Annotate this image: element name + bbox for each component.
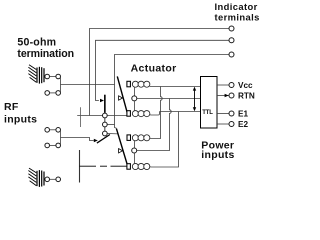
svg-text:inputs: inputs bbox=[201, 149, 234, 161]
terminal circle RTN bbox=[229, 93, 234, 98]
coil core square 1 bbox=[127, 81, 130, 87]
svg-text:inputs: inputs bbox=[4, 114, 37, 126]
switch arm 1 bbox=[117, 76, 127, 112]
wire common 1 to box bbox=[137, 98, 201, 100]
connector A link bbox=[60, 77, 62, 93]
label: RF inputs bbox=[4, 101, 37, 126]
wire indicator 2 bbox=[96, 40, 230, 100]
wire coil 1 to box bbox=[149, 85, 200, 88]
linkage bar lower bbox=[79, 150, 81, 183]
arrow RTN bbox=[225, 94, 229, 98]
termination 2 hatch bbox=[37, 170, 44, 187]
linkage triangle 2 bbox=[119, 149, 123, 153]
wire indicator 3 bbox=[115, 55, 230, 129]
wire RTN bbox=[217, 95, 229, 97]
label: Indicator terminals bbox=[215, 1, 260, 23]
svg-text:RTN: RTN bbox=[238, 92, 255, 101]
svg-text:termination: termination bbox=[17, 48, 74, 60]
connector pair C bbox=[45, 177, 50, 182]
wire indicator 1 branch to chain bbox=[77, 115, 102, 117]
common node circle 1 bbox=[134, 87, 136, 96]
wire tap termination 1 to node bbox=[61, 84, 115, 86]
terminal circle E2 bbox=[229, 122, 234, 127]
wire tap RF input to arm bbox=[61, 138, 94, 141]
termination 1 wire to connector bbox=[43, 76, 46, 78]
common node circle 2 bbox=[134, 141, 136, 148]
svg-text:E1: E1 bbox=[238, 110, 248, 119]
wire chain circle3 to arm 2 bbox=[107, 133, 118, 135]
wire E2 bbox=[217, 123, 229, 125]
chain spine bbox=[104, 113, 106, 136]
coil 1 bbox=[132, 81, 150, 87]
wire chain circle2 to node bbox=[107, 124, 114, 126]
termination 1 hatch bbox=[37, 67, 44, 84]
chain circle 1 bbox=[103, 113, 108, 118]
chain circle 3 bbox=[103, 131, 108, 136]
wire chain circle1 to contact square 2 bbox=[107, 115, 127, 117]
wire E1 bbox=[217, 113, 229, 115]
svg-text:Vcc: Vcc bbox=[238, 81, 253, 90]
riser coil 4 bbox=[149, 112, 178, 168]
switch arm 2 bbox=[116, 129, 127, 167]
connector pair A row 1 bbox=[45, 74, 50, 79]
coil 3 bbox=[132, 135, 150, 141]
linkage guide bar bbox=[80, 107, 82, 127]
connector pair A row 2 bbox=[45, 91, 50, 96]
arrow RF input to contact bbox=[94, 139, 98, 143]
TTL level double arrow bbox=[193, 87, 196, 112]
label: 50-ohm termination bbox=[17, 37, 74, 60]
linkage triangle 1 bbox=[119, 96, 123, 100]
plunger bar top bbox=[104, 95, 106, 113]
coil 2 bbox=[132, 111, 150, 117]
coil core square 2 bbox=[127, 111, 130, 117]
contact diagonal behind chain circle 3 bbox=[97, 135, 110, 144]
svg-text:E2: E2 bbox=[238, 120, 248, 129]
label: Power inputs bbox=[201, 139, 234, 161]
svg-text:RF: RF bbox=[4, 101, 19, 113]
dash-dot link to arm 2 bbox=[80, 165, 127, 167]
wire Vcc bbox=[217, 84, 229, 86]
wire coil 2 jog bbox=[149, 112, 159, 116]
wire drive B to box bbox=[160, 111, 201, 113]
terminal circle E1 bbox=[229, 111, 234, 116]
wire indicator 1 bbox=[90, 29, 230, 116]
riser coil 3 bbox=[149, 112, 160, 139]
svg-text:TTL: TTL bbox=[202, 110, 213, 116]
terminal circle indicator 3 bbox=[229, 52, 234, 57]
terminal circle indicator 2 bbox=[229, 38, 234, 43]
terminal circle indicator 1 bbox=[229, 26, 234, 31]
chain circle 2 bbox=[103, 122, 108, 127]
svg-text:50-ohm: 50-ohm bbox=[17, 37, 56, 49]
jog coil1 branch over common bbox=[161, 87, 163, 112]
riser common 2 bbox=[137, 99, 171, 151]
connector pair B row 1 bbox=[45, 128, 50, 133]
svg-text:terminals: terminals bbox=[215, 11, 260, 22]
coil 4 bbox=[132, 163, 150, 169]
terminal circle Vcc bbox=[229, 83, 234, 88]
svg-text:Actuator: Actuator bbox=[131, 63, 177, 75]
coil core square 3 bbox=[127, 135, 131, 141]
coil core square 4 bbox=[127, 164, 130, 170]
arrow indicator2 to plunger bbox=[100, 99, 104, 102]
connector B link bbox=[60, 130, 62, 146]
svg-text:Indicator: Indicator bbox=[215, 1, 258, 12]
connector pair B row 2 bbox=[45, 143, 50, 148]
